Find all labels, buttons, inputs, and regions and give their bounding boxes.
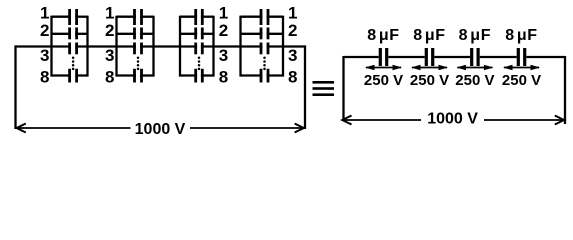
svg-text:8 μF: 8 μF: [367, 27, 400, 44]
wire: group 4 left bus: [239, 16, 241, 77]
svg-text:3: 3: [219, 46, 228, 65]
svg-text:250 V: 250 V: [502, 72, 541, 89]
dimension arrow: 250 V across C1: [365, 65, 402, 71]
capacitor 3 of group 1 (on main series wire): [68, 43, 78, 55]
equivalence symbol: [313, 81, 335, 96]
ellipsis: capacitors 4-7 of group 2: [137, 57, 140, 71]
dimension arrow: 250 V across C4: [503, 65, 540, 71]
svg-text:1: 1: [288, 3, 297, 22]
svg-text:8 μF: 8 μF: [459, 27, 492, 44]
ellipsis: capacitors 4-7 of group 3: [198, 57, 201, 71]
svg-text:1000 V: 1000 V: [427, 111, 478, 128]
wire: equivalent circuit top wire (C4 to right end): [526, 56, 565, 58]
label: capacitor numbers 1,2,3,8 of group 3: [219, 3, 228, 86]
capacitor 3 of group 3 (on main series wire): [194, 43, 203, 55]
dimension arrow: 250 V across C3: [456, 65, 493, 71]
svg-text:1: 1: [105, 3, 114, 22]
wire: left vertical lead of equivalent circuit: [342, 56, 344, 121]
svg-text:2: 2: [288, 21, 297, 40]
svg-text:8: 8: [219, 68, 228, 87]
wire: equivalent circuit top wire (left end to C1): [344, 56, 379, 58]
wire: group 3 right bus: [212, 16, 214, 77]
capacitor 1 of group 3: [180, 9, 214, 25]
svg-text:8: 8: [40, 68, 49, 87]
label: capacitor numbers 1,2,3,8 of group 4: [288, 3, 297, 86]
capacitor 8 of group 1: [52, 69, 88, 83]
capacitor C2 8uF: [425, 48, 435, 66]
svg-text:2: 2: [40, 21, 49, 40]
wire: group 1 left bus: [50, 16, 52, 77]
capacitor 2 of group 1: [52, 28, 88, 40]
wire: main series wire segment (left end to group 1): [16, 45, 72, 47]
wire: equivalent circuit top wire (C2 to C3): [434, 56, 470, 58]
svg-text:2: 2: [105, 21, 114, 40]
wire: group 1 right bus: [86, 16, 88, 77]
svg-text:250 V: 250 V: [410, 72, 449, 89]
label: capacitor numbers 1,2,3,8 of group 1: [40, 3, 49, 86]
capacitor 8 of group 2: [117, 69, 154, 83]
svg-text:8 μF: 8 μF: [505, 27, 538, 44]
wire: main series wire segment (group 1 to group 2): [75, 45, 136, 47]
capacitor 3 of group 2 (on main series wire): [133, 43, 143, 55]
svg-text:8 μF: 8 μF: [413, 27, 446, 44]
capacitor 8 of group 3: [180, 69, 214, 83]
wire: equivalent circuit top wire (C3 to C4): [480, 56, 517, 58]
wire: group 2 left bus: [115, 16, 117, 77]
wire: group 2 right bus: [152, 16, 154, 77]
svg-text:250 V: 250 V: [455, 72, 494, 89]
label: capacitor numbers 1,2,3,8 of group 2: [105, 3, 114, 86]
dimension arrow: 1000 V across equivalent circuit: [342, 116, 564, 125]
svg-text:2: 2: [219, 21, 228, 40]
wire: main series wire segment (group 4 to right drop): [267, 45, 305, 47]
capacitor 2 of group 3: [180, 28, 214, 40]
capacitor 3 of group 4 (on main series wire): [260, 43, 270, 55]
capacitor 1 of group 4: [241, 9, 284, 25]
svg-text:1: 1: [219, 3, 228, 22]
capacitor 2 of group 4: [241, 28, 284, 40]
svg-text:1000 V: 1000 V: [135, 121, 186, 138]
wire: group 3 left bus: [179, 16, 181, 77]
svg-text:3: 3: [40, 46, 49, 65]
svg-text:250 V: 250 V: [364, 72, 403, 89]
ellipsis: capacitors 4-7 of group 4: [263, 57, 266, 71]
capacitor C3 8uF: [470, 48, 480, 66]
wire: left vertical lead of left bank: [14, 45, 16, 129]
capacitor 8 of group 4: [241, 69, 284, 83]
svg-text:1: 1: [40, 3, 49, 22]
wire: right vertical lead of equivalent circuit: [564, 56, 566, 124]
capacitor C4 8uF: [517, 48, 527, 66]
wire: right vertical lead of left bank: [304, 45, 306, 129]
capacitor 2 of group 2: [117, 28, 154, 40]
capacitor 1 of group 1: [52, 9, 88, 25]
capacitor 1 of group 2: [117, 9, 154, 25]
wire: group 4 right bus: [282, 16, 284, 77]
ellipsis: capacitors 4-7 of group 1: [72, 57, 75, 71]
svg-text:3: 3: [288, 46, 297, 65]
wire: equivalent circuit top wire (C1 to C2): [388, 56, 424, 58]
dimension arrow: 1000 V across left bank: [17, 124, 304, 133]
svg-text:3: 3: [105, 46, 114, 65]
wire: main series wire segment (group 3 to group 4): [201, 45, 263, 47]
capacitor C1 8uF: [379, 48, 389, 66]
svg-text:8: 8: [105, 68, 114, 87]
svg-text:8: 8: [288, 68, 297, 87]
wire: main series wire segment (group 2 to group 3): [140, 45, 197, 47]
dimension arrow: 250 V across C2: [411, 65, 448, 71]
